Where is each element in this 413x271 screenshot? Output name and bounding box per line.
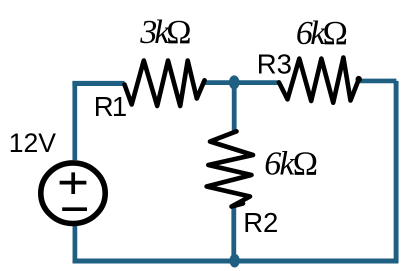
wire middle upper (node A to R2 top) <box>232 83 237 131</box>
svg-text:R2: R2 <box>243 207 278 238</box>
svg-text:3kΩ: 3kΩ <box>139 14 190 51</box>
node B (bottom junction) <box>230 254 240 268</box>
wire R3 right to top-right corner <box>359 79 397 84</box>
wire left vertical lower (source bottom to bottom-left corner) <box>73 226 78 263</box>
wire bottom horizontal <box>73 259 399 264</box>
svg-text:R3: R3 <box>257 49 292 80</box>
svg-text:6kΩ: 6kΩ <box>296 15 347 52</box>
voltage source plus sign <box>60 172 87 194</box>
svg-text:12V: 12V <box>9 128 57 158</box>
resistor R2 zigzag (vertical) <box>207 131 253 206</box>
svg-text:6kΩ: 6kΩ <box>264 145 317 182</box>
wire left vertical upper (top-left corner to source top) <box>72 82 77 160</box>
voltage source V1 circle <box>41 163 105 224</box>
wire right vertical <box>394 81 399 263</box>
resistor R3 right end blob <box>356 76 362 82</box>
wire middle lower (R2 bottom to node B) <box>231 206 236 261</box>
svg-text:R1: R1 <box>94 91 126 122</box>
wire node A to R3 left <box>234 80 280 85</box>
resistor R3 zigzag <box>279 58 359 103</box>
wire top-left (source top to R1 left) <box>72 81 124 86</box>
voltage source minus sign <box>62 207 87 211</box>
wire R1 right to node A <box>205 80 235 85</box>
node A (top junction) <box>229 75 240 89</box>
resistor R1 zigzag <box>125 61 205 107</box>
